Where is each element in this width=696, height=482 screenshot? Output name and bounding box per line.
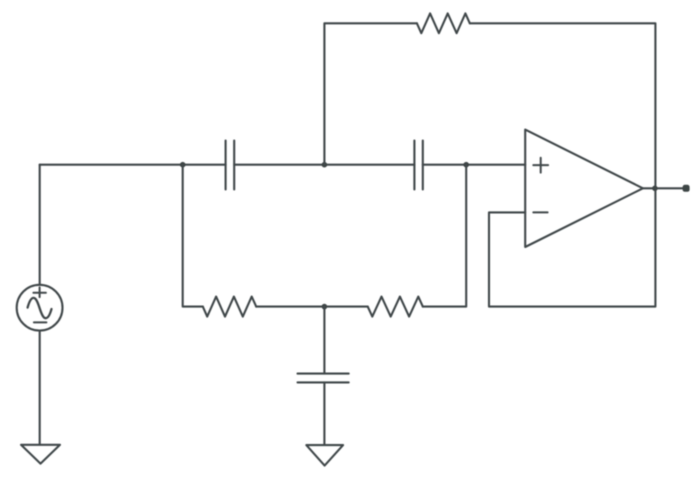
node junction at output [652, 186, 658, 192]
wire op-amp output [643, 187, 683, 189]
capacitor C3 plates [298, 374, 349, 383]
wire feedback loop up-left segment [324, 23, 417, 164]
op-amp U1 minus input mark [533, 211, 547, 213]
wire main horizontal from input to C1 [40, 164, 226, 166]
wire inverting input feedback box [489, 188, 655, 306]
capacitor C2 plates [414, 141, 422, 190]
wire from input node down to source top [39, 165, 41, 285]
node junction at lower branch / C3 [322, 304, 328, 310]
node junction at input branch [180, 162, 186, 168]
capacitor C1 plates [226, 141, 235, 190]
wire from C2 to op-amp noninverting input [423, 164, 525, 166]
voltage source V1 plus polarity mark [33, 287, 46, 297]
output terminal square [683, 185, 690, 192]
wire lower branch from input junction down and right to R2 [183, 165, 203, 307]
resistor R3 (lower right) [368, 297, 423, 317]
voltage source V1 circle [17, 285, 63, 331]
wire from R3 up to main line junction [423, 165, 466, 307]
wire from C1 to C2 [234, 164, 414, 166]
op-amp U1 plus input mark [533, 158, 548, 173]
wire between R2 and R3 [256, 306, 368, 308]
wire from lower junction down to C3 [323, 307, 325, 374]
voltage source V1 minus polarity mark [34, 321, 47, 323]
wire feedback loop top-right segment down to output [470, 23, 656, 188]
op-amp U1 triangle [525, 130, 643, 247]
voltage source V1 sine wave [28, 298, 52, 318]
node junction right of C2 [463, 162, 469, 168]
node junction at feedback takeoff [322, 162, 328, 168]
ground (below source) [21, 445, 60, 464]
resistor R1 (top feedback) [417, 13, 470, 33]
wire from C3 down to ground [323, 382, 325, 445]
ground (below C3) [306, 445, 343, 466]
resistor R2 (lower left) [203, 297, 256, 317]
wire from source bottom to ground [39, 331, 41, 445]
